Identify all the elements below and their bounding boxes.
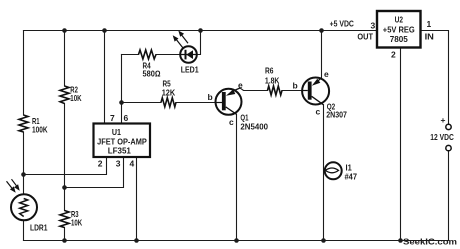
junction dot: U2 pin 2 bottom bbox=[398, 238, 403, 243]
wire: R4 to LED1 anode to +5V rail bbox=[122, 31, 201, 55]
junction dot: Q1 collector bottom bbox=[234, 238, 239, 243]
battery minus terminal bbox=[446, 145, 451, 150]
svg-text:2N307: 2N307 bbox=[326, 110, 347, 120]
svg-text:100K: 100K bbox=[32, 125, 48, 135]
LED LED1 bbox=[173, 31, 197, 63]
junction dot: pin 7 top bbox=[102, 28, 107, 33]
wire: bottom ground rail bbox=[24, 240, 449, 242]
wire: Q2 collector down through lamp to ground bbox=[323, 105, 325, 241]
wire: +5V top rail bbox=[24, 30, 378, 32]
lamp I1 bbox=[325, 162, 342, 179]
resistor R4 bbox=[139, 50, 157, 59]
junction dot: LED1 top bbox=[198, 28, 203, 33]
svg-text:LDR1: LDR1 bbox=[30, 223, 48, 233]
svg-text:c: c bbox=[316, 107, 321, 117]
resistor R5 bbox=[161, 98, 176, 107]
junction dot: pin6-R4-R5 node bbox=[119, 100, 124, 105]
wire: battery minus to ground bbox=[448, 151, 450, 241]
svg-text:12K: 12K bbox=[162, 88, 176, 98]
junction dot: R2 top bbox=[62, 28, 67, 33]
svg-text:b: b bbox=[208, 92, 213, 102]
junction dot: R3 bottom bbox=[62, 238, 67, 243]
svg-text:3: 3 bbox=[371, 21, 376, 31]
junction dot: Q2 emitter top bbox=[319, 28, 324, 33]
svg-text:3: 3 bbox=[116, 159, 121, 169]
svg-text:580Ω: 580Ω bbox=[143, 69, 161, 79]
svg-text:7805: 7805 bbox=[390, 34, 408, 44]
resistor R6 bbox=[268, 86, 283, 95]
wire: Q1 emitter to R6 to Q2 base bbox=[240, 88, 302, 91]
svg-text:LED1: LED1 bbox=[181, 65, 199, 75]
svg-text:IN: IN bbox=[425, 32, 434, 42]
svg-text:2N5400: 2N5400 bbox=[240, 122, 268, 132]
junction dot: lamp bottom bbox=[321, 238, 326, 243]
op-amp U1 bbox=[94, 124, 151, 158]
wire: U1 pin 6 branch bbox=[121, 55, 123, 124]
svg-text:2: 2 bbox=[391, 50, 396, 60]
svg-text:e: e bbox=[238, 80, 243, 90]
svg-text:OUT: OUT bbox=[357, 32, 373, 42]
wire: U1 pin 3 to R2/R3 node bbox=[65, 157, 124, 188]
svg-text:LF351: LF351 bbox=[108, 146, 131, 156]
svg-text:#47: #47 bbox=[345, 172, 358, 182]
battery plus terminal bbox=[446, 124, 451, 129]
svg-text:12 VDC: 12 VDC bbox=[430, 132, 454, 142]
resistor R1 bbox=[19, 115, 28, 132]
transistor Q2 bbox=[302, 78, 329, 105]
svg-text:+: + bbox=[441, 115, 446, 125]
regulator U2 bbox=[377, 11, 421, 48]
svg-text:R6: R6 bbox=[265, 66, 274, 76]
svg-text:SeekIC.com: SeekIC.com bbox=[403, 237, 457, 247]
photoresistor LDR1 bbox=[7, 179, 38, 220]
svg-text:1.8K: 1.8K bbox=[265, 76, 280, 86]
junction dot: R2-R3-pin3 node bbox=[62, 185, 67, 190]
wire: U2 IN pin 1 to battery plus bbox=[421, 31, 449, 125]
wire: R5 to Q1 base bbox=[122, 102, 224, 104]
wire: R2-R3 branch bbox=[64, 31, 66, 241]
svg-text:6: 6 bbox=[124, 113, 129, 123]
svg-text:4: 4 bbox=[130, 159, 135, 169]
svg-text:c: c bbox=[229, 117, 234, 127]
wire: U2 pin 2 to ground bbox=[400, 48, 402, 241]
wire: U1 pin 7 to +5V rail bbox=[104, 31, 106, 124]
wire: U1 pin 2 to R1/LDR1 node bbox=[24, 157, 107, 175]
wire: left rail with R1/LDR1 branch bbox=[23, 31, 25, 241]
svg-text:+5 VDC: +5 VDC bbox=[330, 19, 354, 29]
svg-text:10K: 10K bbox=[70, 93, 82, 103]
svg-text:1: 1 bbox=[427, 19, 432, 29]
svg-text:7: 7 bbox=[110, 113, 115, 123]
junction dot: R1-LDR1-pin2 node bbox=[21, 172, 26, 177]
svg-text:2: 2 bbox=[98, 159, 103, 169]
wire: U1 pin 4 to ground bbox=[136, 157, 138, 241]
resistor R3 bbox=[60, 211, 69, 228]
svg-text:+5V REG: +5V REG bbox=[383, 25, 415, 35]
transistor Q1 bbox=[216, 88, 242, 115]
svg-text:b: b bbox=[293, 81, 298, 91]
junction dot: pin 4 bottom bbox=[134, 238, 139, 243]
svg-text:e: e bbox=[324, 69, 329, 79]
wire: Q2 emitter to +5V rail bbox=[321, 31, 323, 78]
resistor R2 bbox=[60, 86, 69, 104]
svg-text:U1: U1 bbox=[112, 127, 121, 137]
wire: Q1 collector to ground bbox=[236, 114, 238, 240]
svg-text:U2: U2 bbox=[395, 15, 404, 25]
svg-text:10K: 10K bbox=[71, 218, 83, 228]
